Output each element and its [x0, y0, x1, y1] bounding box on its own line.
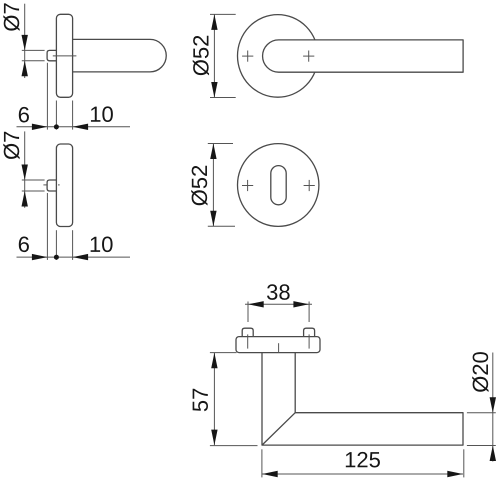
screw cap left — [242, 328, 253, 336]
dim 125: dimension line — [262, 473, 463, 475]
dim Ø7 view1: label — [3, 3, 19, 30]
dim 125: extension line right — [463, 449, 465, 477]
dim Ø52 view3: extension line bottom — [210, 97, 236, 99]
dim Ø7 view1: extension line top — [22, 49, 45, 51]
dim 57: arrow up — [211, 353, 217, 369]
dim Ø20: dimension line — [492, 353, 494, 462]
dim Ø7 view1: arrow up — [22, 61, 28, 77]
centerline view1 — [53, 55, 77, 57]
screw cross right view3 — [303, 51, 314, 62]
dim 38: extension line right — [308, 302, 310, 323]
dim 6 view1: label — [19, 107, 29, 123]
screw cross left view4 — [242, 180, 253, 191]
dim Ø7 view2: extension line bottom — [22, 190, 45, 192]
rose plate side view — [236, 337, 320, 353]
dim 38: dimension line — [245, 303, 312, 305]
dim 38: arrow left — [248, 301, 264, 307]
dim Ø52 view4: arrow up — [210, 144, 216, 160]
dim 57: arrow down — [211, 430, 217, 446]
screw cross left view3 — [242, 51, 253, 62]
dim 10 view1: label — [91, 106, 113, 122]
centerline view2 — [43, 184, 59, 186]
dim 6/10 view2: arrow left — [73, 254, 89, 260]
dim 38: extension line left — [247, 302, 249, 323]
spindle tab side view — [47, 50, 56, 60]
dim Ø7 view1: extension line bottom — [22, 60, 45, 62]
dim 125: label — [346, 452, 380, 468]
screw cap right — [304, 328, 315, 336]
dim Ø7 view2: arrow down — [22, 165, 28, 181]
dim 125: arrow right — [447, 471, 463, 477]
dim Ø7 view1: dimension line — [24, 4, 26, 78]
dim 57: extension line bottom — [210, 445, 258, 447]
dim Ø7 view2: dimension line — [24, 131, 26, 207]
dim Ø52 view3: arrow down — [211, 82, 217, 98]
handle profile outline — [262, 353, 463, 446]
dim Ø20: extension line bottom — [467, 445, 496, 447]
dim 125: arrow left — [262, 471, 278, 477]
rose R1 side view — [56, 14, 72, 97]
dim 6/10 view1: extension line at rose left — [55, 101, 57, 130]
dim 6/10 view2: arrow right — [32, 254, 48, 260]
dim 57: dimension line — [213, 353, 215, 446]
rose R2 front circle — [238, 144, 319, 227]
screw shank left — [247, 334, 249, 348]
plate center tick — [278, 343, 280, 353]
dim 6/10 view2: extension line at rose right — [72, 230, 74, 260]
dim Ø20: label — [472, 352, 488, 392]
dim Ø20: extension line top — [467, 412, 496, 414]
dim Ø52 view4: dimension line — [212, 144, 214, 227]
dim Ø7 view2: label — [3, 132, 19, 159]
dim 6/10 view1: extension line at tab left — [46, 63, 48, 130]
lever front view — [263, 40, 464, 72]
dim Ø52 view3: label — [193, 36, 209, 76]
dim 6/10 view1: dimension line — [17, 126, 131, 128]
rose R2 side view — [56, 144, 72, 227]
screw shank right — [308, 334, 310, 348]
dim 57: label — [193, 389, 208, 411]
dim Ø52 view4: extension line bottom — [208, 225, 235, 227]
dim Ø7 view1: arrow down — [22, 35, 28, 51]
dim Ø52 view3: dimension line — [213, 14, 215, 97]
dim 6/10 view2: extension line at tab left — [46, 193, 48, 260]
rose R1 front circle — [237, 15, 318, 98]
dim 125: extension line left — [261, 449, 263, 477]
dim 6/10 view2: dimension line — [17, 256, 131, 258]
dim 6/10 view2: junction dot — [54, 255, 59, 260]
lever bar side view — [72, 39, 166, 72]
dim Ø52 view4: arrow down — [210, 211, 216, 227]
bend edge diagonal — [262, 413, 295, 445]
dim 6 view2: label — [19, 237, 29, 253]
dim 38: arrow right — [293, 301, 309, 307]
dim Ø52 view3: arrow up — [211, 14, 217, 30]
dim 10 view2: label — [91, 237, 113, 253]
keyhole slot — [271, 166, 286, 205]
dim 6/10 view1: arrow right — [32, 124, 48, 130]
dim Ø52 view4: extension line top — [208, 143, 233, 145]
dim Ø20: arrow up — [490, 446, 496, 462]
screw cross right view4 — [304, 180, 315, 191]
dim Ø52 view4: label — [191, 166, 207, 206]
dim 57: extension line top — [210, 352, 237, 354]
dim 6/10 view1: junction dot — [54, 124, 59, 129]
dim 6/10 view1: arrow left — [73, 124, 89, 130]
dim Ø52 view3: extension line top — [210, 13, 236, 15]
dim Ø20: arrow down — [490, 397, 496, 413]
dim Ø7 view2: arrow up — [22, 191, 28, 207]
dim 6/10 view1: extension line at rose right — [72, 101, 74, 130]
spindle tab view2 — [47, 180, 56, 191]
dim 6/10 view2: extension line at rose left — [55, 230, 57, 260]
dim 38: label — [267, 284, 290, 300]
dim Ø7 view2: extension line top — [22, 179, 45, 181]
